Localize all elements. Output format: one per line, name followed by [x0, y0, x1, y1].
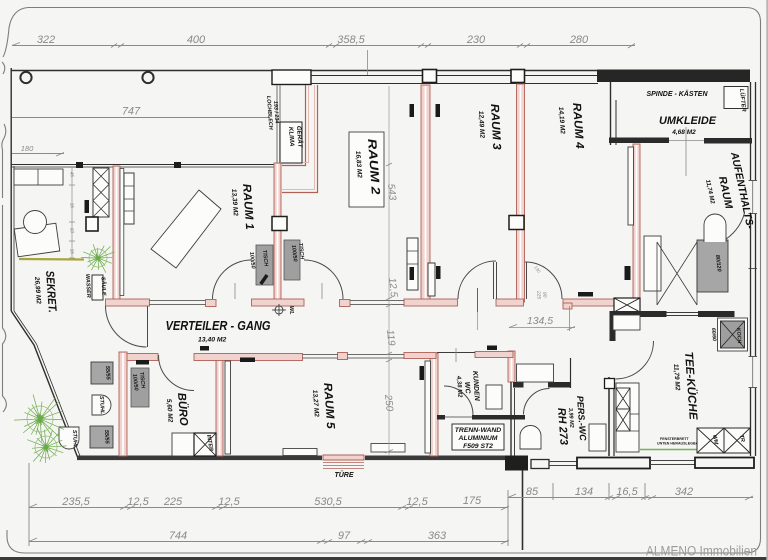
- svg-text:55/55: 55/55: [103, 430, 110, 445]
- grey box 55/55 upper: [91, 362, 113, 384]
- bottom dim vertical left: [28, 463, 30, 546]
- svg-text:TÜRE: TÜRE: [334, 470, 353, 479]
- raum5 socket east: [420, 366, 425, 380]
- red wall raum1/raum2: [274, 163, 281, 302]
- sekret regal xbox shelf: [93, 168, 109, 217]
- bottom dim boundary stubs: [552, 483, 554, 500]
- red duct line 1: [282, 85, 306, 166]
- svg-text:225: 225: [535, 290, 542, 300]
- kundenwc dim tick: [455, 348, 457, 362]
- wall anchor square 2: [174, 162, 181, 168]
- dim line 180: [12, 153, 64, 155]
- svg-text:BÜRO: BÜRO: [175, 392, 190, 426]
- teekueche counter west: [616, 383, 639, 452]
- tr box: [724, 428, 750, 453]
- sekret round table: [24, 211, 47, 234]
- tick 230/280: [517, 44, 530, 48]
- corridor bottom red column: [338, 353, 348, 360]
- corridor top wall segment raum3: [404, 299, 458, 306]
- wm box: [697, 428, 724, 453]
- buero white box: [172, 433, 194, 456]
- sekret north wall: [11, 164, 274, 166]
- corridor socket: [200, 346, 209, 351]
- svg-text:235,5: 235,5: [61, 496, 90, 508]
- svg-text:WC: WC: [463, 382, 471, 395]
- buero tisch: [131, 368, 149, 407]
- raum4 slim shelf: [628, 147, 634, 225]
- kundenwc door header line: [437, 352, 475, 354]
- junction box raum3/4 wall: [509, 216, 524, 230]
- svg-text:358,5: 358,5: [337, 34, 365, 46]
- red wall buero west: [119, 352, 127, 456]
- top boundary wall line west part: [11, 70, 598, 72]
- tick 358.5/230: [418, 44, 431, 48]
- aufenthaltsraum door arc: [722, 213, 745, 242]
- door arc raum1: [213, 260, 252, 299]
- tick 400/358.5: [326, 44, 339, 48]
- tuere red sill: [323, 455, 364, 460]
- raum5 socket top: [240, 358, 255, 363]
- south wall door TUERE opening: [322, 455, 365, 462]
- wall drop line below step: [522, 470, 524, 550]
- door arc raum3: [458, 261, 496, 299]
- door arc buero: [159, 355, 195, 391]
- red wall kundenwc east upper: [508, 351, 515, 382]
- socket symbol: [85, 200, 90, 213]
- tick end right 280: [628, 44, 635, 49]
- east wall window 2: [748, 356, 758, 388]
- round column 2: [142, 72, 153, 83]
- saeule box: [92, 275, 103, 300]
- raum3 socket low: [436, 266, 441, 279]
- svg-text:747: 747: [122, 106, 141, 118]
- door arc kundenwc: [444, 386, 473, 415]
- svg-text:12,49 M2: 12,49 M2: [477, 111, 485, 139]
- east outer wall: [750, 82, 752, 456]
- svg-text:250: 250: [382, 393, 395, 412]
- glazing corridor top raum2 east: [350, 300, 404, 302]
- umkleide south wall east part: [704, 138, 752, 144]
- svg-text:180: 180: [21, 144, 34, 153]
- svg-text:VERTEILER - GANG: VERTEILER - GANG: [166, 318, 271, 333]
- raum2 socket tilted: [259, 274, 268, 285]
- sekret olive desk edge: [19, 258, 84, 261]
- svg-text:WASSER: WASSER: [84, 274, 91, 298]
- sekret diagonal wall: [11, 311, 77, 457]
- corridor bottom wall buero/raum5: [194, 354, 303, 361]
- svg-text:16,5: 16,5: [616, 486, 638, 498]
- plant lower 1: [14, 395, 64, 442]
- svg-text:STUHL: STUHL: [98, 396, 105, 415]
- raum2 tisch left: [256, 245, 273, 285]
- svg-text:400: 400: [187, 34, 206, 46]
- buero socket: [136, 360, 149, 365]
- sekret dark box: [86, 217, 98, 231]
- frame torn left edge bracket 1: [2, 124, 6, 198]
- raum4 socket: [625, 266, 630, 280]
- frame torn left edge line: [3, 205, 7, 412]
- red wall raum3/raum4: [517, 84, 525, 302]
- svg-text:ALUMINIUM: ALUMINIUM: [458, 435, 498, 442]
- tick 322/400: [111, 44, 124, 48]
- tee-kueche west wall lower: [608, 377, 610, 456]
- svg-text:TRENN-WAND: TRENN-WAND: [455, 427, 502, 434]
- svg-text:12,5: 12,5: [218, 496, 240, 508]
- svg-text:119: 119: [384, 329, 397, 346]
- svg-text:13,40 M2: 13,40 M2: [198, 337, 227, 344]
- umkleide west wall: [610, 82, 612, 145]
- svg-text:TR: TR: [738, 434, 745, 442]
- svg-text:STUHL: STUHL: [71, 430, 78, 449]
- south wall window 1 sill: [283, 449, 317, 456]
- svg-text:F509 ST2: F509 ST2: [463, 443, 493, 450]
- raum2 socket top: [410, 104, 415, 117]
- red wall sekret/raum1: [113, 166, 120, 302]
- svg-text:322: 322: [37, 34, 55, 46]
- svg-text:55/55: 55/55: [104, 366, 111, 381]
- bottom dim row1 left line: [29, 507, 508, 509]
- svg-text:60/60: 60/60: [710, 328, 717, 341]
- klima geraet box: [280, 122, 302, 163]
- green fensterbrett line: [640, 449, 700, 451]
- south door opening tee-kueche: [650, 460, 695, 462]
- perswc toilet: [520, 426, 541, 449]
- door arc raum4: [525, 262, 562, 299]
- column box RAUM2/3: [423, 70, 437, 83]
- wall white cores: [116, 167, 118, 301]
- corridor top wall segment sekret: [106, 299, 150, 306]
- svg-text:342: 342: [675, 486, 693, 498]
- lochblech opening box: [272, 70, 311, 85]
- south wall small box right of step: [531, 460, 549, 469]
- frame torn left edge top hook: [2, 8, 28, 75]
- wall anchor square 1: [76, 162, 83, 168]
- room label raum2 boxed: [349, 132, 384, 207]
- pers-wc north wall: [513, 382, 524, 388]
- glazing corridor bottom raum5: [303, 354, 338, 356]
- corridor shaft xbox: [614, 298, 640, 312]
- south wall outlined block 2: [695, 458, 754, 469]
- svg-text:280: 280: [569, 34, 589, 46]
- corridor step red piece: [563, 303, 572, 309]
- svg-text:230: 230: [466, 34, 486, 46]
- red wall buero/raum5: [216, 355, 223, 456]
- sekret shelf right of wall: [124, 173, 134, 224]
- pers-wc door arc: [524, 389, 550, 415]
- kundenwc fixture: [486, 385, 502, 409]
- corridor top wall tbar raum1/2: [252, 299, 305, 306]
- svg-text:KOCH: KOCH: [735, 328, 742, 344]
- interior dim ticks: [385, 163, 393, 453]
- pers-wc hinge pilaster: [605, 379, 615, 389]
- svg-text:744: 744: [169, 530, 187, 542]
- svg-text:SPINDE - KÄSTEN: SPINDE - KÄSTEN: [646, 90, 708, 98]
- east wall window 1: [748, 180, 758, 214]
- svg-text:RAUM 3: RAUM 3: [488, 104, 502, 151]
- red wall raum2/raum3: [421, 85, 430, 300]
- koch stove: [718, 318, 748, 351]
- svg-text:225: 225: [163, 496, 183, 508]
- raum2 shelf east: [407, 238, 418, 290]
- stuhl chair upper: [92, 395, 111, 415]
- svg-text:530,5: 530,5: [314, 496, 342, 508]
- umkleide thick north wall: [597, 70, 750, 83]
- dim 134.5 line: [509, 327, 575, 329]
- column box RAUM3/4: [511, 70, 525, 83]
- svg-text:UMKLEIDE: UMKLEIDE: [659, 115, 717, 127]
- umkleide south wall west part: [609, 138, 669, 144]
- interior dim vertical line: [388, 86, 390, 455]
- svg-text:12,5: 12,5: [406, 496, 428, 508]
- raum5 slim shelf east: [425, 361, 431, 453]
- niche divider wall: [570, 358, 572, 388]
- grey box 55/55 lower: [90, 426, 113, 448]
- svg-text:UNTEN HERAUSLEGBAR: UNTEN HERAUSLEGBAR: [657, 442, 701, 446]
- svg-text:97: 97: [338, 530, 351, 542]
- dim 134.5 vertical refs: [569, 306, 571, 331]
- svg-text:363: 363: [428, 530, 447, 542]
- svg-text:134,5: 134,5: [527, 315, 553, 327]
- raum5 slim shelf west: [225, 361, 231, 454]
- south wall outlined block 1: [577, 458, 650, 469]
- raum3 socket top: [436, 104, 441, 117]
- plant lower 2: [27, 428, 66, 463]
- svg-text:KLIMA: KLIMA: [287, 127, 295, 148]
- tee-kueche north wall horizontal: [610, 311, 667, 317]
- sekret plant: [81, 244, 114, 273]
- tee-kueche west wall upper: [610, 311, 616, 341]
- bottom dim row1 right line: [508, 497, 753, 499]
- south wall main band: [77, 456, 506, 461]
- corridor top wall red column a: [206, 300, 217, 307]
- wl symbol: [272, 304, 286, 316]
- corridor bottom wall kundenwc: [475, 352, 513, 358]
- corridor top wall segment raum3/4 east: [496, 299, 524, 306]
- bottom dim row2 line: [29, 541, 508, 543]
- raum1 tilted desk: [151, 190, 221, 268]
- east wall window tick: [749, 268, 758, 270]
- red wall aufenthaltsraum west: [633, 144, 640, 311]
- inter xbox: [194, 433, 216, 456]
- west outer wall: [10, 68, 12, 311]
- svg-text:175: 175: [463, 495, 482, 507]
- corridor top wall red column b: [340, 300, 351, 307]
- red duct line 2: [282, 85, 318, 193]
- svg-text:FENSTERBRETT: FENSTERBRETT: [660, 437, 690, 441]
- red wall raum5/kundenwc: [430, 353, 438, 456]
- aufenthalt easel lines: [657, 242, 697, 305]
- raum4 socket bottom: [578, 292, 593, 297]
- svg-text:ALMENO Immobilien: ALMENO Immobilien: [646, 544, 757, 559]
- aufenthalt shelf: [644, 236, 661, 291]
- aufenthalt socket: [626, 266, 631, 280]
- tee-kueche north window glazing: [667, 312, 699, 314]
- top dimension line row: [12, 45, 635, 47]
- door arc raum2: [304, 260, 343, 299]
- svg-text:SÄULE: SÄULE: [100, 277, 108, 296]
- raum1 slim wall shelf: [120, 169, 124, 296]
- trennwand label box: [452, 424, 504, 450]
- sekret dim column: [71, 167, 73, 258]
- pers-wc west wall: [510, 382, 512, 456]
- teekueche fridge: [613, 315, 640, 330]
- top wall inner lines: [311, 75, 598, 77]
- scan bottom edge: [0, 557, 768, 560]
- glazing corridor top sekret window: [150, 300, 206, 302]
- scan right edge: [766, 0, 768, 560]
- kundenwc top socket: [487, 346, 497, 351]
- dim tick 358.5/230 vertical: [367, 50, 369, 75]
- svg-text:4,68 M2: 4,68 M2: [671, 129, 696, 136]
- stuhl chair lower: [59, 427, 79, 449]
- svg-text:543: 543: [385, 183, 398, 201]
- tee-kueche north wall east part: [698, 311, 735, 317]
- south wall window 2 sill: [371, 444, 405, 453]
- aufenthalt bed 80/120: [697, 240, 728, 292]
- sekret desk tilted: [14, 223, 59, 257]
- umkleide door dim tick: [685, 127, 687, 176]
- raum2 tisch right: [284, 240, 300, 280]
- sekret wall cabinet: [14, 169, 63, 185]
- corridor bottom wall west of buero door: [127, 354, 158, 361]
- dim line 747: [12, 117, 270, 119]
- corridor bottom wall raum5 east: [404, 353, 436, 359]
- raum3 shelf: [428, 263, 435, 296]
- corridor top wall segment east: [563, 299, 614, 306]
- south wall step block: [505, 456, 528, 471]
- luefter box: [724, 87, 748, 109]
- svg-text:12,5: 12,5: [386, 277, 399, 298]
- bottom dim vertical right: [507, 490, 509, 546]
- kundenwc south partition wall: [437, 415, 445, 420]
- svg-text:85: 85: [526, 486, 539, 498]
- door arc sekret: [106, 306, 147, 347]
- tee-kueche door arc: [616, 341, 654, 379]
- round column 1: [20, 72, 31, 83]
- washbasin niche counter: [517, 364, 554, 382]
- svg-text:134: 134: [575, 486, 593, 498]
- svg-text:12,5: 12,5: [127, 496, 149, 508]
- junction box raum1/2 wall: [272, 217, 287, 231]
- tick end left: [12, 43, 20, 46]
- perswc vanity: [589, 424, 606, 451]
- svg-text:WL: WL: [288, 306, 294, 315]
- lochblech grey duct lines: [276, 85, 278, 164]
